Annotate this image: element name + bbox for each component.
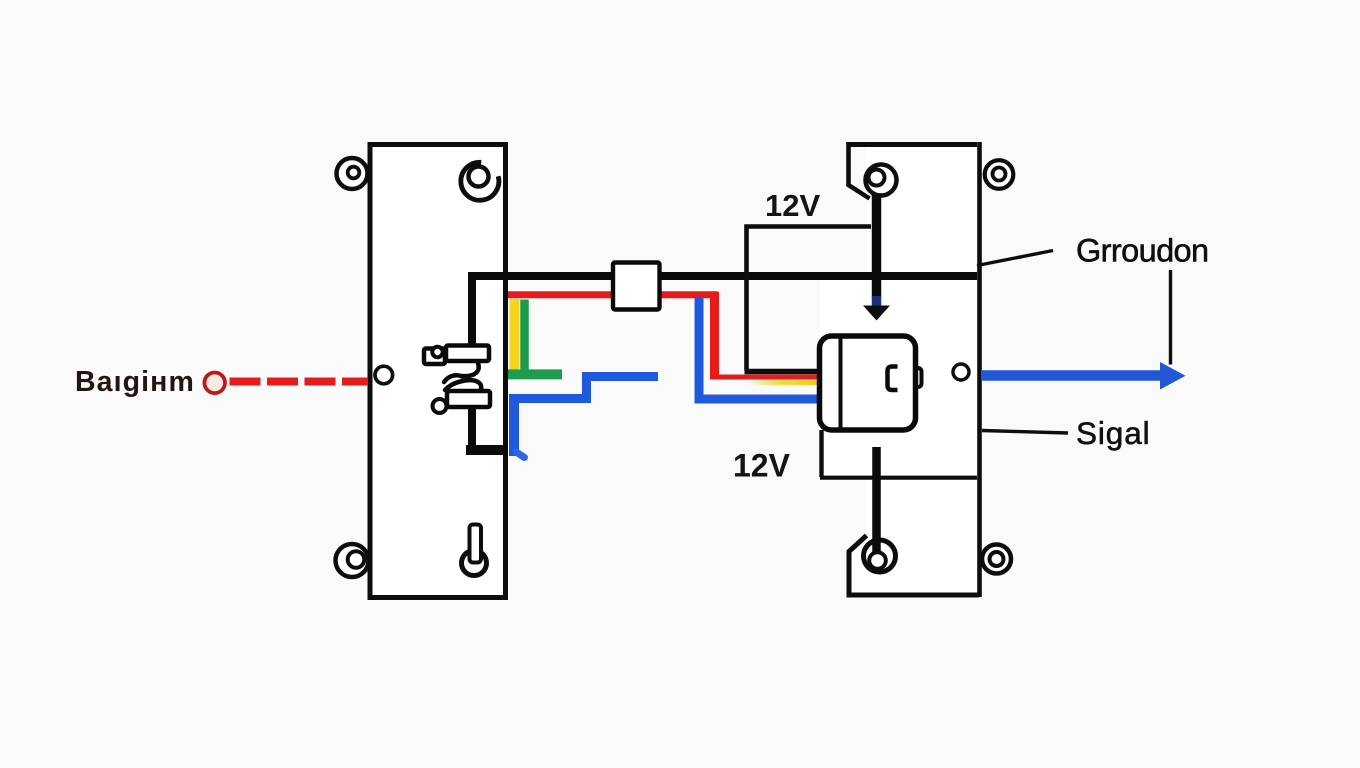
port P1 on left box edge xyxy=(375,366,393,384)
wire W7 end nub xyxy=(516,452,525,458)
arrow A2 lower black wire xyxy=(872,447,881,553)
squiggle in X1 xyxy=(462,363,479,376)
mounting hole H3 (left box bottom-left) xyxy=(336,544,369,577)
leader L2 vertical under Groudon xyxy=(1169,270,1172,365)
arrow A3 blue signal output xyxy=(981,370,1161,381)
node circle (battery, red) xyxy=(204,373,225,394)
U2 top-left mounting ear outline xyxy=(849,142,870,199)
svg-text:12V: 12V xyxy=(733,448,791,484)
mounting hole H5 (right box top-right) xyxy=(985,160,1014,189)
mounting hole H2 (left box top-right, spiral) xyxy=(461,162,499,200)
component X1 inside left box (garbled connector glyph) xyxy=(459,352,489,394)
wire W1 stub at left box edge xyxy=(466,445,508,455)
module box U1 (left control unit) xyxy=(370,145,506,598)
relay K1 (rounded) xyxy=(912,368,922,387)
U2 bottom-left ear + bottom edge xyxy=(849,536,979,596)
U2 left edge below relay xyxy=(819,430,823,477)
svg-text:Sigal: Sigal xyxy=(1076,415,1151,451)
wire W2 red into relay xyxy=(710,375,819,380)
wire W6 green drop xyxy=(520,300,529,375)
connector J1 (inline square) xyxy=(613,263,660,310)
dashed battery wire xyxy=(230,378,369,386)
relay K1 latch xyxy=(888,367,898,391)
mounting hole H6 (right box bottom-left, spiral) xyxy=(864,540,896,572)
U2 divider line xyxy=(820,476,977,480)
arrow A1 (12V down into relay) xyxy=(872,186,882,297)
port P2 on right box xyxy=(953,364,969,380)
svg-text:Baıgiнm: Baıgiнm xyxy=(75,366,195,398)
mounting hole H1 (left box top-left) xyxy=(337,158,368,189)
power button icon (left box bottom-right) xyxy=(462,551,487,576)
mounting hole H4 (right box top-left, spiral) xyxy=(866,165,897,196)
wire W8 black 12V bracket to relay xyxy=(747,227,872,371)
U2 right edge xyxy=(977,142,982,597)
leader L1 to Groudon xyxy=(977,251,1053,266)
wire W2 red vertical xyxy=(710,292,719,379)
svg-text:Grroudon: Grroudon xyxy=(1076,233,1209,269)
wire W1 black feed (left box to right box) xyxy=(472,276,977,452)
wire W3 blue signal (to relay) xyxy=(699,298,819,399)
svg-text:12V: 12V xyxy=(765,188,820,223)
wire W4 yellow stub into relay xyxy=(745,380,820,385)
U2 top edge xyxy=(849,142,978,147)
wire W2 red 12V horizontal xyxy=(508,291,717,298)
leader L3 to Sigal xyxy=(982,431,1068,434)
wire W5 yellow drop at left box xyxy=(510,299,520,372)
wire W7 blue stepped (left) xyxy=(509,399,519,457)
module box U2 (right relay module) body fill xyxy=(848,144,977,597)
mounting hole H7 (right box bottom-right) xyxy=(982,545,1011,574)
